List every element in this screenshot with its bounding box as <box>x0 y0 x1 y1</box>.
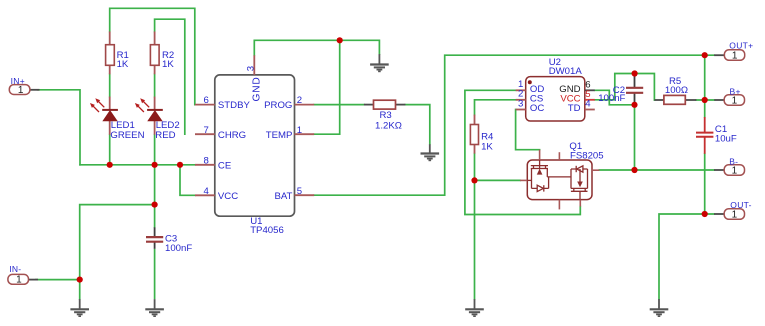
U1 pin 4 stub <box>195 194 215 196</box>
right FET center with arrow <box>579 169 581 182</box>
U2 pin 6 stub (GND, gray) <box>585 89 595 91</box>
svg-text:OC: OC <box>530 103 544 114</box>
capacitor C2 <box>626 76 643 103</box>
svg-text:TEMP: TEMP <box>266 130 293 141</box>
wire OC pin3 to Q1 gate <box>516 110 540 150</box>
svg-text:3: 3 <box>246 66 257 71</box>
Q1 left pin stub <box>520 179 527 181</box>
wire IN- junction to ground <box>79 280 81 300</box>
wire OD pin1 to Q1 source <box>465 90 580 214</box>
IC U1 TP4056 body <box>215 75 295 216</box>
node IN- <box>77 277 83 283</box>
wire R3 right to ground <box>405 105 429 145</box>
Q1 top stub 2 <box>558 152 560 160</box>
wire OUT- row <box>659 214 714 299</box>
node R4/Q1 <box>471 177 477 183</box>
left FET gate line into box <box>539 160 541 169</box>
U1 pin 2 stub <box>295 104 315 106</box>
ground (below IN-) <box>70 299 89 316</box>
svg-text:3: 3 <box>518 98 523 109</box>
port B+ <box>714 95 744 106</box>
wire IN- junction up to C3 top <box>80 205 155 280</box>
port OUT+ <box>714 50 745 61</box>
port OUT- <box>714 209 744 220</box>
wire IN- row <box>36 279 80 281</box>
right FET bars <box>571 187 588 189</box>
wire C2 bottom to B- row <box>634 105 636 170</box>
svg-text:CE: CE <box>218 160 231 171</box>
U2 pin 4 stub (TD) <box>585 109 595 111</box>
wire C2 top to R5 left <box>635 74 655 101</box>
wire LED2 bottom to CE row <box>154 135 156 165</box>
mid link <box>547 176 571 178</box>
svg-text:1: 1 <box>732 166 738 177</box>
svg-text:GND: GND <box>252 76 263 101</box>
U2 pin1 marker dot <box>528 80 532 84</box>
svg-text:1K: 1K <box>481 142 493 153</box>
wire OUT+/B+ column <box>704 55 706 117</box>
ground (below C3) <box>145 299 164 316</box>
wire GND pin6 to C2 bottom <box>595 90 635 105</box>
wire B- row <box>599 169 714 171</box>
svg-text:BAT: BAT <box>274 191 292 202</box>
U1 pin 5 stub <box>295 194 315 196</box>
svg-text:1: 1 <box>732 96 738 107</box>
svg-text:1K: 1K <box>162 59 174 70</box>
svg-text:100nF: 100nF <box>165 243 192 254</box>
svg-text:OUT+: OUT+ <box>729 41 753 51</box>
wire R4 junction to Q1 left pin <box>475 179 521 181</box>
svg-text:1.2KΩ: 1.2KΩ <box>375 121 402 132</box>
svg-text:R3: R3 <box>380 110 392 121</box>
svg-text:PROG: PROG <box>264 100 292 111</box>
node OUT+ <box>702 52 708 58</box>
svg-text:6: 6 <box>203 95 208 106</box>
wire BAT to OUT+ <box>314 55 714 195</box>
svg-text:100nF: 100nF <box>598 93 625 104</box>
resistor R4 <box>470 115 478 154</box>
svg-text:2: 2 <box>297 95 302 106</box>
svg-text:RED: RED <box>155 130 175 141</box>
ground (below R4) <box>465 299 484 316</box>
wire CE row <box>80 164 195 166</box>
U1 pin 6 stub <box>195 104 215 106</box>
wire B+ row <box>696 99 714 101</box>
resistor R3 <box>364 100 406 109</box>
capacitor C3 <box>146 227 163 299</box>
wire C1 bottom to OUT- row <box>704 154 706 214</box>
Q1 right pin stub <box>592 169 600 171</box>
U1 pin 3 stub <box>253 55 255 75</box>
svg-text:1: 1 <box>297 125 302 136</box>
svg-text:1: 1 <box>16 275 22 286</box>
wire VCC pin5 to C2 top <box>595 74 635 100</box>
svg-text:5: 5 <box>297 186 302 197</box>
svg-text:8: 8 <box>203 155 208 166</box>
capacitor C1 <box>696 117 713 154</box>
svg-text:CHRG: CHRG <box>218 130 246 141</box>
node OUT- <box>702 211 708 217</box>
IC U2 DW01A body <box>526 77 585 121</box>
svg-text:LED2: LED2 <box>156 120 180 131</box>
ground (below OUT-) <box>650 299 669 316</box>
svg-text:FS8205: FS8205 <box>570 150 604 161</box>
U1 pin 1 stub <box>295 133 315 135</box>
node GND/TEMP <box>337 37 343 43</box>
svg-text:1: 1 <box>18 85 24 96</box>
transistor Q1 FS8205 body <box>527 160 592 200</box>
svg-text:1K: 1K <box>117 59 129 70</box>
svg-text:10uF: 10uF <box>715 134 737 145</box>
svg-text:VCC: VCC <box>218 191 238 202</box>
right FET source exit <box>579 191 581 199</box>
svg-text:4: 4 <box>203 186 209 197</box>
port B- <box>714 165 744 176</box>
svg-text:4: 4 <box>585 99 591 110</box>
wire CE row to VCC pin <box>180 165 195 196</box>
svg-text:1: 1 <box>732 210 738 221</box>
svg-text:TD: TD <box>568 103 581 114</box>
svg-text:DW01A: DW01A <box>549 66 583 77</box>
U2 pin 3 stub <box>516 109 526 111</box>
Q1 gate1 pin (top, from OC) <box>539 150 541 160</box>
right diode <box>571 168 588 170</box>
wire C3 column from CE row <box>154 165 156 228</box>
wire IN+ to CE row <box>38 90 80 165</box>
U2 pin 1 stub <box>516 89 526 91</box>
wire PROG to R3 <box>314 104 364 106</box>
svg-text:7: 7 <box>203 125 208 136</box>
svg-text:TP4056: TP4056 <box>250 225 284 236</box>
resistor R5 <box>654 95 696 104</box>
svg-text:1: 1 <box>732 51 738 62</box>
left body diode <box>532 187 549 189</box>
svg-text:STDBY: STDBY <box>218 100 251 111</box>
svg-text:100Ω: 100Ω <box>665 85 688 96</box>
port IN- <box>8 274 38 284</box>
Q1 internal MOSFETs <box>527 160 587 200</box>
port IN+ <box>9 85 39 95</box>
Q1 source2 pin (bottom) <box>579 200 581 207</box>
wire LED1 bottom to CE row <box>109 135 111 165</box>
left FET legs <box>531 169 533 189</box>
wire R4 bottom to ground <box>474 154 476 300</box>
node C3 top <box>152 202 158 208</box>
svg-text:IN-: IN- <box>9 264 21 274</box>
node LED2/C3/CE <box>152 162 158 168</box>
svg-text:GREEN: GREEN <box>110 130 144 141</box>
left FET bars <box>531 165 548 167</box>
node C2/B- <box>631 167 637 173</box>
U2 pin 2 stub <box>516 99 526 101</box>
resistor R2 <box>150 32 159 75</box>
ground (top, GND net) <box>370 54 389 71</box>
wire GND pin3 net <box>254 40 379 55</box>
resistor R1 <box>106 32 115 75</box>
Q1 bottom stub (floating) <box>558 200 560 210</box>
U1 pin 8 stub <box>195 164 215 166</box>
node B+ <box>702 97 708 103</box>
wire R1 top to STDBY <box>110 8 195 104</box>
wire CS pin2 to R4 <box>475 100 516 115</box>
ground (below R3) <box>421 144 440 160</box>
LED1 <box>90 97 118 135</box>
LED2 <box>135 97 163 135</box>
wire TEMP to GND net <box>314 40 340 134</box>
node LED1/CE <box>107 162 113 168</box>
node C2 bottom <box>631 102 637 108</box>
wire R2 top to CHRG <box>155 19 185 134</box>
node VCC branch <box>177 162 183 168</box>
wire R1 to LED1 <box>109 74 111 96</box>
U2 pin 5 stub (VCC, red) <box>585 99 595 101</box>
node C2 top <box>632 70 638 76</box>
wire R2 to LED2 <box>154 74 156 96</box>
svg-text:LED1: LED1 <box>111 120 135 131</box>
U1 pin 7 stub <box>195 133 215 135</box>
